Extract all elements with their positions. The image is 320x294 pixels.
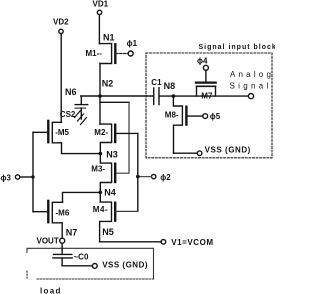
svg-text:-M5: -M5	[55, 128, 69, 137]
transistor M7	[196, 71, 216, 101]
wire C1 to analog signal terminal	[159, 95, 248, 97]
svg-text:M3-: M3-	[91, 165, 105, 174]
svg-text:CS2: CS2	[60, 110, 76, 119]
terminal VSS (GND) signal block	[197, 145, 251, 155]
svg-text:Signal input block: Signal input block	[199, 44, 276, 51]
svg-text:N8: N8	[164, 81, 176, 91]
transistor M1	[86, 44, 129, 64]
junction phi3 bus	[31, 175, 34, 178]
capacitor CS2	[75, 96, 88, 125]
svg-text:M4-: M4-	[93, 205, 108, 214]
transistor M2	[94, 124, 138, 154]
svg-text:M1--: M1--	[86, 49, 103, 58]
wire M5 source to node N3	[62, 143, 101, 154]
svg-text:N7: N7	[66, 227, 78, 237]
transistor M8	[165, 96, 203, 153]
svg-text:N6: N6	[65, 87, 77, 97]
transistor M6	[33, 201, 70, 238]
svg-text:ϕ4: ϕ4	[197, 57, 208, 66]
svg-text:N1: N1	[103, 33, 115, 43]
svg-text:ϕ2: ϕ2	[160, 173, 171, 182]
junction N2	[98, 94, 102, 98]
wire VD2 to M5 drain	[60, 34, 62, 123]
terminal VSS (GND) load	[92, 260, 148, 269]
svg-text:Analog: Analog	[230, 70, 274, 79]
terminal VD1	[93, 0, 109, 15]
svg-text:C1: C1	[151, 78, 162, 87]
svg-text:ϕ1: ϕ1	[127, 39, 138, 48]
svg-text:VOUT: VOUT	[37, 236, 59, 245]
svg-text:ϕ3: ϕ3	[1, 173, 12, 182]
svg-text:VSS (GND): VSS (GND)	[102, 260, 148, 269]
svg-text:V1=VCOM: V1=VCOM	[171, 238, 213, 247]
svg-text:ϕ5: ϕ5	[210, 112, 221, 121]
transistor M4	[93, 192, 138, 241]
terminal phi4	[197, 57, 208, 71]
svg-text:VSS (GND): VSS (GND)	[205, 145, 251, 154]
terminal phi3	[1, 173, 20, 182]
transistor M3	[91, 154, 115, 193]
wire M4 source to V1=VCOM	[100, 241, 162, 243]
svg-text:M7: M7	[201, 91, 213, 100]
junction phi2 bus	[136, 175, 140, 179]
svg-text:Signal: Signal	[230, 82, 272, 91]
terminal VD2	[53, 17, 69, 33]
terminal VOUT	[37, 236, 65, 245]
svg-text:N4: N4	[104, 188, 116, 198]
terminal phi2	[152, 173, 172, 182]
wire VD1 to M1 drain	[98, 15, 100, 44]
load box	[27, 248, 154, 279]
svg-text:load: load	[40, 286, 62, 294]
wire C0 to VSS terminal	[62, 265, 92, 267]
svg-text:M8-: M8-	[165, 111, 179, 120]
terminal V1=VCOM	[161, 238, 214, 247]
svg-text:~C0: ~C0	[74, 253, 89, 262]
wire phi3 to gate bus	[20, 176, 33, 178]
wire phi2 to right bus	[138, 176, 152, 178]
terminal phi5	[203, 112, 221, 121]
capacitor C0	[53, 254, 72, 265]
wire N4 to M6 drain	[63, 192, 101, 202]
svg-text:VD1: VD1	[93, 0, 109, 9]
terminal phi1	[127, 39, 138, 56]
wire VOUT to C0	[61, 243, 63, 254]
wire M8 source to VSS	[174, 152, 198, 154]
svg-text:VD2: VD2	[53, 17, 69, 26]
wire right bus M2 gate to M4 gate	[137, 133, 139, 211]
svg-text:M2-: M2-	[94, 128, 108, 137]
terminal Analog Signal	[230, 70, 275, 99]
svg-text:N5: N5	[102, 227, 114, 237]
signal input block dashed box	[146, 53, 272, 158]
svg-text:-M6: -M6	[56, 208, 70, 217]
wire N2 branch to M3 gate	[100, 101, 129, 103]
junction N4	[99, 191, 103, 195]
wire gate bus M5 to M6	[32, 132, 34, 211]
svg-text:N2: N2	[102, 78, 114, 88]
junction N3	[99, 152, 103, 156]
junction N8	[172, 94, 176, 98]
wire main bus M1 source down to M2 drain	[99, 64, 101, 125]
wire N6/CS2 to N2 to C1	[81, 95, 154, 97]
capacitor C1	[151, 78, 162, 105]
transistor M5	[33, 121, 70, 143]
svg-text:N3: N3	[106, 149, 118, 159]
